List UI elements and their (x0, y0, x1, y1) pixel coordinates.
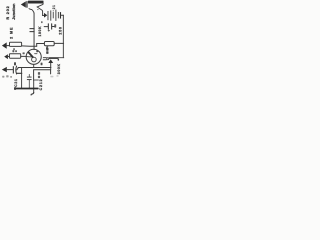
wire (stem to box corner) (50, 68, 52, 70)
wire (diode stem) (50, 63, 52, 67)
wire tail hook below rail (31, 92, 34, 95)
wire (squiggle to vertical) (29, 9, 34, 14)
diode CR201 anode triangle (48, 59, 53, 63)
label above C210 (14, 62, 16, 65)
svg-text:C212: C212 (39, 79, 43, 91)
wire V1 (vertical from top to tube) (33, 13, 35, 49)
tail blob (31, 94, 32, 95)
svg-text:300K: 300K (57, 63, 61, 74)
wire (comb to right rail) (61, 14, 63, 16)
polarity + mark (48, 30, 50, 32)
wire V2 (down to ground rail) (21, 68, 23, 89)
wire inside tube to cathode (26, 56, 31, 58)
arrow (off-page, tube grid row) (4, 54, 8, 59)
capacitor C210 plate (13, 66, 14, 73)
resistor R203 (zigzag below top bar) (37, 4, 43, 16)
svg-text:100K: 100K (38, 26, 42, 37)
bus bar (top rail) (28, 1, 44, 4)
node dot near resistor (37, 9, 38, 10)
capacitor C211 (horizontal plates) (28, 74, 30, 76)
tube grid dash (35, 53, 37, 55)
tube V201 envelope (26, 49, 41, 64)
arrow (pointing right into transformer) (44, 13, 47, 18)
tiny label above left box (15, 50, 17, 52)
svg-text:2 ME: 2 ME (9, 27, 13, 39)
faint specks (bottom-left text remnants) (2, 75, 12, 78)
wire (to R205 box left stub) (37, 43, 45, 45)
capacitor C210 curved plate (15, 66, 18, 74)
wire (box to tube grid) (21, 55, 27, 57)
arrow (off-page, bottom left) (2, 67, 7, 72)
feedthrough plate after top arrow (26, 1, 27, 8)
wire (arrow to C210) (7, 69, 13, 71)
tube beam wedge (29, 53, 33, 58)
svg-text:21: 21 (52, 4, 56, 9)
svg-text:250: 250 (59, 26, 63, 34)
svg-text:R 202: R 202 (6, 5, 10, 19)
svg-text:C21: C21 (14, 78, 18, 87)
wire (C211 to ground rail) (28, 80, 30, 88)
pin label 5 (below right of tube) (41, 63, 43, 66)
node blob (junction near cap) (41, 21, 42, 23)
junction dot (bar to R206) (58, 59, 60, 61)
tiny label below R201 (13, 48, 15, 50)
svg-text:Junction: Junction (12, 3, 16, 20)
dark link under cap (17, 72, 22, 74)
wire V3 (box to below rail) (33, 80, 35, 93)
capacitor plates right of tube (43, 56, 47, 59)
diode CR201 cathode bar (49, 57, 59, 59)
wire (R201 box to junction on V1) (22, 45, 37, 47)
wire right rail (vertical) (62, 15, 64, 57)
arrow (off-page, top left) (21, 1, 26, 7)
label inside module box (38, 72, 40, 78)
wire (arrow to R201 box) (7, 45, 10, 47)
transformer T201 plate stack (comb) (47, 11, 50, 20)
wire (bar to right rail) (59, 57, 64, 59)
wire (resistor to arrow) (43, 14, 45, 16)
tiny label over grid wire (23, 52, 25, 54)
terminal circle (47, 58, 49, 60)
pin label 25 (right of tube, rotated) (46, 46, 48, 54)
module box bottom edge (faded) (34, 79, 39, 81)
tube cathode (inner circle) (32, 57, 37, 62)
ground bus rail (14, 88, 38, 90)
wire (tube bottom stub) (33, 64, 35, 67)
pin number 2 (36, 50, 38, 52)
capacitor C204 (electrolytic, horizontal) (44, 26, 48, 28)
wire (riser to R205 box) (36, 44, 38, 47)
wire (arrow to R-grid box) (8, 56, 10, 58)
resistor R201 (boxed) (10, 42, 22, 46)
wire (bottom horizontal bus) (18, 67, 51, 69)
faint specks (bottom-right remnants) (50, 75, 58, 77)
rail left end blob (14, 87, 16, 90)
resistor R205 (boxed) (44, 42, 54, 46)
wire (cap to bottom bus) (17, 68, 18, 70)
wire (R205 box to right rail) (54, 42, 63, 44)
arrow (off-page, mid-left row) (2, 42, 7, 48)
tiny label left of tube (12, 50, 14, 52)
module box (bottom, open) (34, 70, 51, 81)
resistor R-grid (boxed) (9, 54, 20, 58)
label below R205 (46, 47, 48, 49)
capacitor C202 side plates on V1 (30, 28, 35, 29)
